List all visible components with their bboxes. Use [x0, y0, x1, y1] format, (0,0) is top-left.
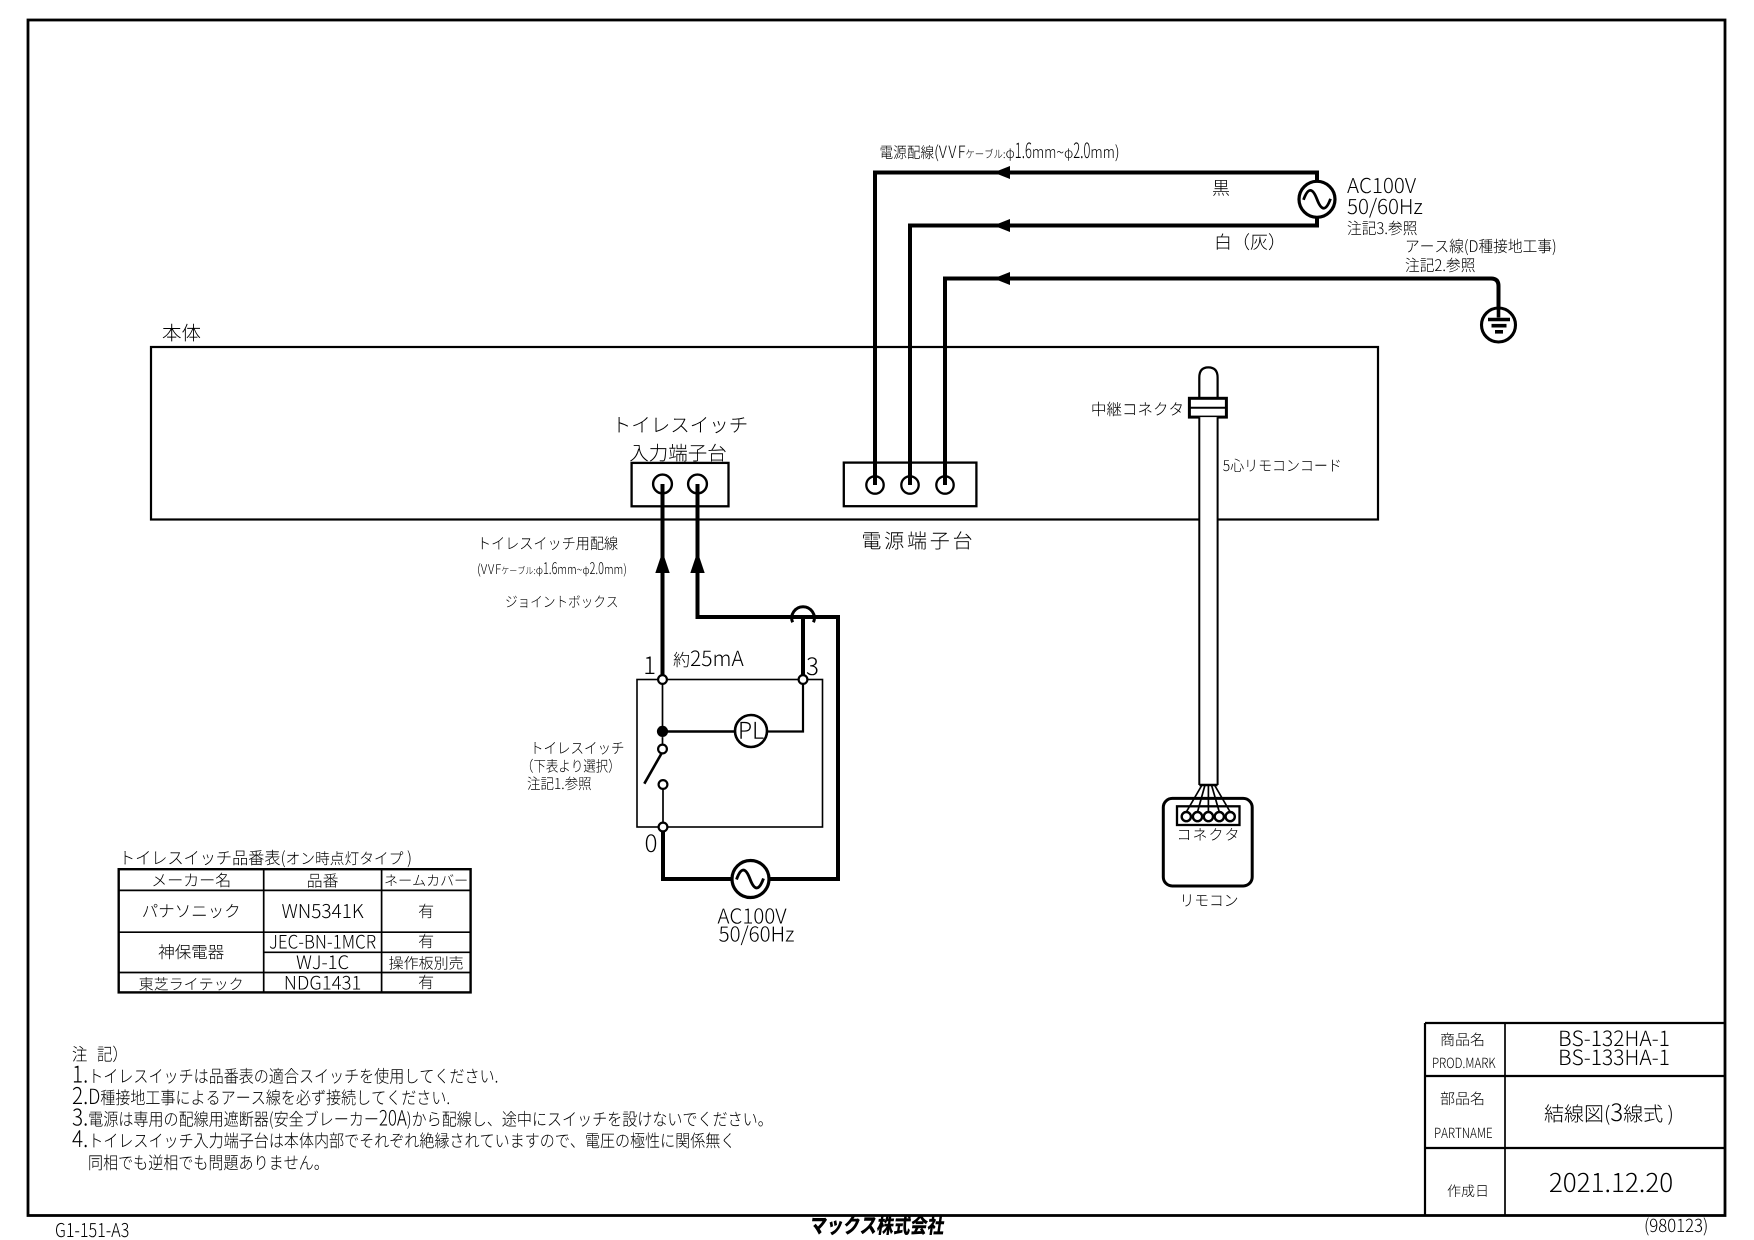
row 東芝ライテック NDG1431 有: [139, 975, 433, 991]
relay connector collar 中継コネクタ: [1189, 398, 1226, 417]
wire black line from AC source to power terminal L: [875, 173, 1317, 487]
note 1: [74, 1066, 497, 1084]
ground symbol (D種接地): [1482, 308, 1516, 342]
AC source bottom: [732, 861, 769, 898]
pin label 3: [807, 657, 818, 675]
note 3: [73, 1108, 763, 1129]
relay connector tip dome: [1199, 367, 1217, 398]
connector block inside remote: [1177, 806, 1240, 825]
labels トイレスイッチ（下表より選択）注記1.参照: [528, 742, 624, 790]
label AC100V 50/60Hz 注記3.参照 (top source): [1347, 178, 1422, 236]
node 0: [659, 823, 668, 832]
notes 注記: [73, 1046, 117, 1063]
wire from input terminal R down and to busbar: [698, 484, 839, 879]
label 白（灰）: [1217, 233, 1273, 250]
power terminal block 電源端子台: [844, 463, 977, 507]
table title トイレスイッチ品番表(オン時点灯タイプ): [125, 850, 411, 868]
labels トイレスイッチ用配線 (VVFケーブル) ジョイントボックス: [482, 536, 618, 550]
remote cord (5-core): [1199, 417, 1217, 785]
arrow up on wire R: [690, 552, 704, 574]
row 神保電器 JEC-BN-1MCR 有 / WJ-1C 操作板別売: [159, 934, 463, 970]
label 作成日: [1448, 1184, 1487, 1197]
switch blade: [644, 754, 661, 784]
note 2: [73, 1087, 449, 1105]
header 品番: [308, 873, 338, 887]
switch contact upper: [658, 737, 667, 753]
label アース線(D種接地工事) 注記2.参照: [1406, 239, 1556, 273]
label 商品名 PROD.MARK: [1433, 1033, 1495, 1069]
wire node1 to dot: [662, 680, 664, 732]
title block grid: [1425, 1023, 1725, 1216]
label 部品名 PARTNAME: [1435, 1092, 1492, 1139]
label 本体: [163, 324, 201, 342]
switch contact lower: [659, 780, 668, 789]
PL pilot lamp: [735, 715, 767, 747]
AC source top AC100V 50/60Hz: [1299, 181, 1335, 217]
label 電源端子台: [863, 531, 971, 549]
wire stubs into power terminals: [875, 463, 945, 485]
toilet switch input terminal block トイレスイッチ入力端子台: [632, 463, 729, 506]
label 黒: [1213, 180, 1229, 196]
terminal circles of input terminal block: [653, 475, 707, 494]
header ネームカバー: [385, 874, 466, 886]
label 約25mA: [674, 650, 744, 667]
wire hop (crossover) on busbar: [792, 607, 815, 623]
earth wire to ground: [945, 279, 1499, 487]
wire PL to node 3: [767, 680, 803, 732]
junction dot: [657, 726, 668, 737]
label 電源配線(VVFケーブル:φ1.6mm~φ2.0mm): [881, 142, 1118, 161]
value 2021.12.20: [1550, 1173, 1672, 1193]
remote control box リモコン: [1163, 798, 1252, 886]
connector pin circles: [1182, 812, 1235, 821]
label リモコン: [1183, 894, 1237, 906]
note 4: [72, 1130, 731, 1148]
arrow up on wire L: [655, 552, 669, 574]
main unit body outline 本体: [151, 347, 1378, 520]
pin label 0: [646, 834, 656, 852]
value 結線図(3線式): [1545, 1103, 1672, 1125]
label 中継コネクタ: [1093, 402, 1182, 417]
wire from busbar down to node 3: [801, 619, 805, 680]
wire contact to node 0: [662, 789, 664, 827]
label トイレスイッチ 入力端子台: [619, 417, 747, 462]
arrow on white wire: [994, 219, 1011, 232]
switch box outline: [637, 680, 823, 828]
arrow on earth wire: [994, 272, 1011, 285]
parts table grid: [119, 869, 471, 992]
fan-out wires from cord to connector pins: [1186, 785, 1230, 812]
wire dot to PL lamp: [663, 730, 736, 733]
arrow on black wire: [994, 166, 1011, 179]
label 5心リモコンコード: [1223, 459, 1340, 472]
wire white line from AC source to power terminal M: [910, 218, 1317, 487]
wire from input terminal L down to switch node 1: [661, 484, 665, 680]
wire node 0 to AC source bottom: [663, 827, 838, 879]
doc number G1-151-A3: [56, 1223, 128, 1237]
label コネクタ: [1179, 828, 1237, 841]
terminal circles of power terminal block: [866, 476, 953, 493]
note 4 cont: [89, 1154, 319, 1170]
value BS-132HA-1 BS-133HA-1: [1560, 1030, 1668, 1065]
node 1: [658, 675, 667, 684]
code (980123): [1646, 1217, 1707, 1235]
maker logo マックス株式会社: [810, 1215, 946, 1235]
table header メーカー名: [153, 873, 229, 888]
row パナソニック WN5341K 有: [143, 904, 433, 919]
pin label 1: [645, 657, 654, 675]
label AC100V 50/60Hz (bottom source): [718, 908, 794, 945]
node 3: [799, 675, 808, 684]
